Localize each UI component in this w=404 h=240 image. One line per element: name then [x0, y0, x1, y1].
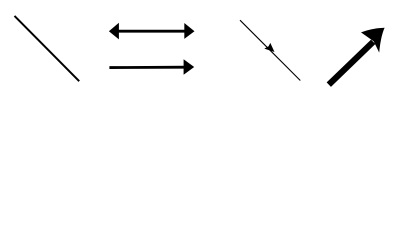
- node B: right arrowhead of double arrow: [184, 23, 194, 39]
- node D: midpoint arrowhead on thin diagonal: [264, 43, 274, 52]
- wire: thick diagonal arrow shaft: [329, 42, 373, 85]
- node A: left arrowhead of double arrow: [109, 23, 119, 40]
- wire: single horizontal arrow shaft: [109, 66, 185, 69]
- node C: arrowhead of single horizontal arrow: [184, 59, 195, 74]
- wire: double-headed horizontal arrow shaft: [116, 30, 187, 33]
- node E: arrowhead of thick diagonal arrow: [361, 28, 385, 53]
- wire: plain diagonal line segment: [15, 16, 80, 81]
- wire: thin diagonal line with midpoint arrowhead: [240, 20, 300, 80]
